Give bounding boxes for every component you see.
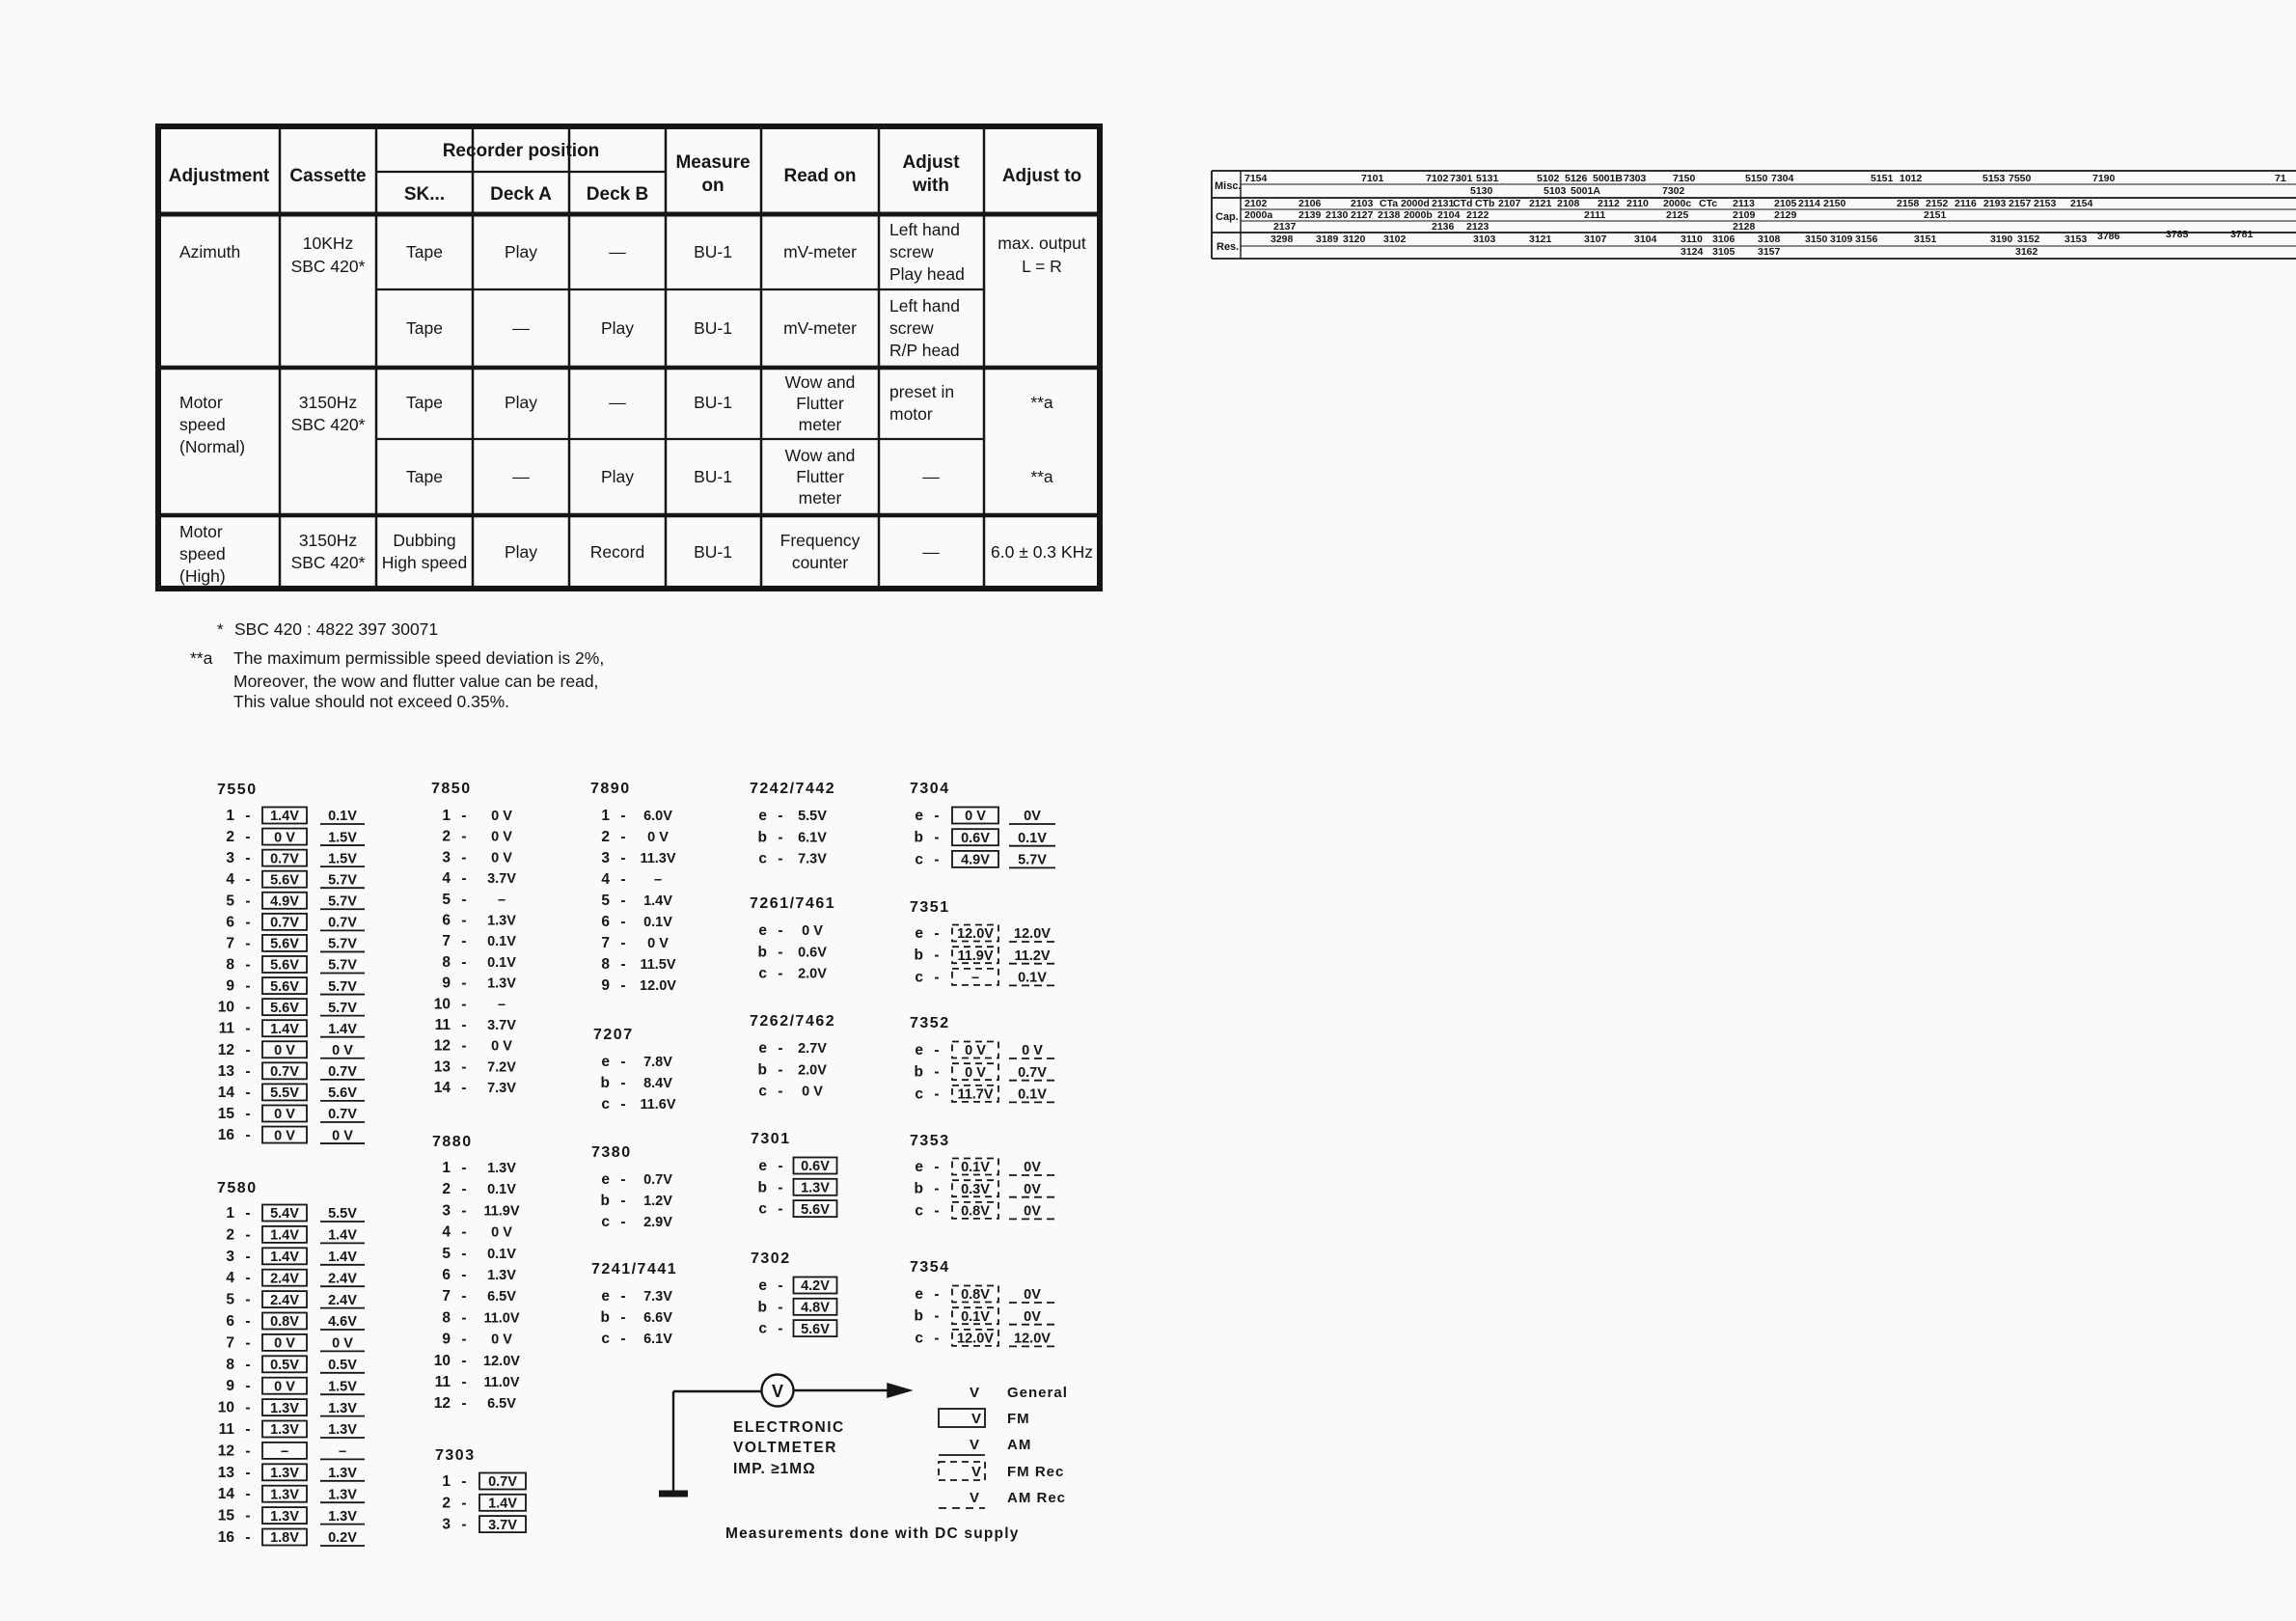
svg-text:0.1V: 0.1V (961, 1309, 990, 1325)
svg-text:mV-meter: mV-meter (783, 318, 857, 338)
svg-text:3.7V: 3.7V (487, 871, 516, 887)
svg-text:-: - (461, 1495, 466, 1511)
svg-text:-: - (245, 1357, 250, 1373)
svg-text:0.1V: 0.1V (643, 915, 672, 930)
svg-text:-: - (245, 850, 250, 866)
svg-text:1012: 1012 (1900, 173, 1923, 184)
svg-text:0.1V: 0.1V (328, 809, 357, 824)
svg-text:-: - (934, 948, 939, 964)
svg-text:1: 1 (226, 1205, 234, 1222)
svg-text:0 V: 0 V (802, 1085, 823, 1100)
svg-text:1: 1 (601, 808, 610, 824)
svg-text:Play: Play (601, 467, 634, 486)
svg-text:Measure: Measure (675, 152, 750, 173)
svg-text:2130: 2130 (1326, 209, 1349, 221)
svg-text:c: c (915, 969, 923, 985)
svg-text:-: - (461, 1224, 466, 1241)
svg-text:-: - (245, 1486, 250, 1502)
svg-text:2: 2 (442, 1181, 451, 1197)
svg-text:2: 2 (601, 829, 610, 845)
svg-text:**a: **a (1030, 467, 1053, 486)
svg-text:meter: meter (799, 488, 842, 508)
svg-text:-: - (245, 1313, 250, 1330)
svg-text:0.8V: 0.8V (961, 1287, 990, 1303)
svg-text:0V: 0V (1024, 1287, 1041, 1303)
svg-text:e: e (915, 925, 923, 942)
svg-text:2152: 2152 (1926, 198, 1949, 209)
svg-text:-: - (245, 1226, 250, 1243)
svg-text:-: - (461, 1332, 466, 1348)
svg-text:7302: 7302 (1662, 185, 1685, 197)
svg-text:Tape: Tape (406, 467, 443, 486)
svg-text:Play head: Play head (889, 264, 965, 284)
svg-text:1.3V: 1.3V (328, 1466, 357, 1481)
svg-text:-: - (245, 1421, 250, 1438)
svg-text:Motor: Motor (179, 393, 223, 412)
svg-text:c: c (915, 851, 923, 867)
svg-text:3152: 3152 (2017, 234, 2040, 245)
svg-text:5.7V: 5.7V (328, 894, 357, 910)
svg-text:-: - (934, 1042, 939, 1058)
svg-text:2150: 2150 (1823, 198, 1846, 209)
svg-text:-: - (778, 966, 782, 982)
svg-text:-: - (620, 1331, 625, 1347)
svg-text:-: - (620, 1171, 625, 1188)
svg-text:V: V (971, 1464, 981, 1480)
svg-text:10KHz: 10KHz (303, 234, 354, 253)
svg-text:0.1V: 0.1V (1018, 971, 1047, 986)
svg-text:15: 15 (218, 1106, 235, 1122)
svg-text:4.8V: 4.8V (801, 1301, 830, 1316)
svg-text:9: 9 (226, 978, 234, 995)
svg-text:11.0V: 11.0V (483, 1375, 519, 1390)
svg-text:2.7V: 2.7V (798, 1041, 827, 1057)
svg-text:0V: 0V (1024, 1309, 1041, 1325)
svg-text:0.6V: 0.6V (961, 831, 990, 846)
svg-text:*: * (217, 620, 224, 639)
svg-text:4.9V: 4.9V (270, 894, 299, 910)
svg-text:1.4V: 1.4V (328, 1250, 357, 1265)
svg-text:Recorder position: Recorder position (443, 141, 600, 161)
svg-text:c: c (915, 1330, 923, 1346)
svg-text:Motor: Motor (179, 522, 223, 541)
svg-text:VOLTMETER: VOLTMETER (733, 1440, 837, 1456)
svg-text:9: 9 (226, 1378, 234, 1394)
svg-text:5150: 5150 (1745, 173, 1768, 184)
svg-text:–: – (971, 971, 979, 986)
svg-text:4: 4 (226, 871, 234, 888)
svg-text:3153: 3153 (2064, 234, 2088, 245)
svg-text:-: - (934, 1159, 939, 1175)
svg-text:2193: 2193 (1983, 198, 2007, 209)
svg-text:e: e (915, 1042, 923, 1058)
svg-text:11.9V: 11.9V (957, 948, 993, 964)
svg-text:8: 8 (226, 1357, 234, 1373)
svg-text:-: - (778, 829, 782, 845)
svg-text:b: b (758, 1179, 767, 1195)
svg-text:6: 6 (601, 914, 610, 930)
svg-text:7: 7 (442, 933, 451, 949)
svg-text:-: - (461, 1080, 466, 1096)
svg-text:2105: 2105 (1774, 198, 1797, 209)
svg-text:5130: 5130 (1470, 185, 1493, 197)
svg-text:3150: 3150 (1805, 234, 1828, 245)
svg-text:0.1V: 0.1V (487, 955, 516, 971)
svg-text:4: 4 (601, 871, 610, 888)
svg-text:-: - (934, 925, 939, 942)
svg-text:Adjustment: Adjustment (169, 166, 270, 186)
svg-text:Deck A: Deck A (490, 184, 552, 205)
svg-text:max. output: max. output (998, 234, 1086, 253)
svg-text:b: b (601, 1309, 610, 1326)
svg-text:e: e (758, 1040, 767, 1057)
svg-text:1.4V: 1.4V (643, 893, 672, 909)
svg-text:0.2V: 0.2V (328, 1530, 357, 1546)
svg-text:-: - (620, 871, 625, 888)
svg-text:7302: 7302 (751, 1250, 791, 1267)
svg-text:-: - (245, 1465, 250, 1481)
svg-text:-: - (934, 851, 939, 867)
svg-text:7150: 7150 (1673, 173, 1696, 184)
svg-text:7353: 7353 (910, 1133, 950, 1149)
svg-text:6.1V: 6.1V (643, 1332, 672, 1347)
svg-text:AM Rec: AM Rec (1007, 1490, 1066, 1506)
svg-text:—: — (922, 467, 940, 486)
svg-text:b: b (758, 1299, 767, 1315)
svg-text:-: - (778, 1179, 782, 1195)
svg-text:0.7V: 0.7V (270, 851, 299, 866)
svg-text:BU-1: BU-1 (694, 318, 732, 338)
svg-text:3.7V: 3.7V (487, 1018, 516, 1033)
svg-text:-: - (461, 1017, 466, 1033)
svg-text:0V: 0V (1024, 809, 1041, 824)
svg-text:1.3V: 1.3V (801, 1181, 830, 1196)
svg-text:3150Hz: 3150Hz (299, 393, 357, 412)
svg-text:Moreover, the wow and flutter: Moreover, the wow and flutter value can … (233, 672, 598, 691)
svg-text:Play: Play (601, 318, 634, 338)
svg-text:e: e (758, 1278, 767, 1294)
svg-text:-: - (461, 1038, 466, 1055)
svg-text:0 V: 0 V (491, 1039, 512, 1055)
svg-text:-: - (245, 808, 250, 824)
svg-text:-: - (934, 1286, 939, 1303)
svg-text:c: c (915, 1085, 923, 1102)
svg-text:5: 5 (226, 893, 234, 909)
svg-text:2138: 2138 (1378, 209, 1401, 221)
svg-text:0.7V: 0.7V (1018, 1065, 1047, 1081)
svg-text:7.3V: 7.3V (643, 1289, 672, 1305)
svg-text:-: - (778, 944, 782, 960)
svg-text:counter: counter (792, 553, 849, 572)
svg-text:7: 7 (226, 1334, 234, 1351)
svg-text:—: — (922, 542, 940, 562)
svg-text:Play: Play (505, 242, 537, 261)
svg-text:Left hand: Left hand (889, 220, 960, 239)
svg-text:The maximum permissible speed: The maximum permissible speed deviation … (233, 648, 604, 668)
svg-text:2000d: 2000d (1401, 198, 1430, 209)
svg-text:2: 2 (442, 829, 451, 845)
svg-text:R/P head: R/P head (889, 341, 960, 360)
svg-text:1: 1 (442, 808, 451, 824)
svg-text:7301: 7301 (1450, 173, 1473, 184)
svg-text:e: e (601, 1171, 610, 1188)
svg-text:2.4V: 2.4V (328, 1293, 357, 1308)
svg-text:5151: 5151 (1871, 173, 1894, 184)
svg-text:c: c (758, 966, 767, 982)
svg-text:-: - (934, 830, 939, 846)
svg-text:—: — (512, 318, 530, 338)
svg-text:c: c (758, 1084, 767, 1100)
svg-text:7190: 7190 (2092, 173, 2116, 184)
svg-text:Wow and: Wow and (785, 372, 856, 392)
svg-text:5.7V: 5.7V (328, 937, 357, 952)
svg-text:-: - (620, 829, 625, 845)
svg-text:-: - (245, 1000, 250, 1016)
svg-text:3102: 3102 (1383, 234, 1407, 245)
svg-text:2109: 2109 (1733, 209, 1756, 221)
svg-text:c: c (758, 1321, 767, 1337)
svg-text:-: - (934, 1202, 939, 1219)
svg-text:0V: 0V (1024, 1204, 1041, 1220)
svg-text:-: - (245, 1508, 250, 1525)
svg-text:5: 5 (226, 1292, 234, 1308)
svg-text:0.7V: 0.7V (488, 1474, 517, 1490)
svg-text:5.6V: 5.6V (328, 1085, 357, 1101)
svg-text:11.5V: 11.5V (640, 957, 675, 973)
svg-text:5.6V: 5.6V (270, 1001, 299, 1016)
svg-text:e: e (915, 1286, 923, 1303)
svg-text:-: - (245, 956, 250, 973)
svg-text:4.9V: 4.9V (961, 853, 990, 868)
svg-text:5.7V: 5.7V (328, 958, 357, 974)
svg-text:-: - (778, 1321, 782, 1337)
svg-text:3108: 3108 (1758, 234, 1781, 245)
svg-text:5153: 5153 (1982, 173, 2006, 184)
svg-text:0 V: 0 V (1022, 1043, 1043, 1058)
svg-text:speed: speed (179, 415, 226, 434)
svg-text:3: 3 (442, 1517, 451, 1533)
svg-text:SK...: SK... (404, 184, 445, 205)
svg-text:-: - (245, 978, 250, 995)
svg-text:1: 1 (226, 808, 234, 824)
svg-text:1.4V: 1.4V (488, 1497, 517, 1512)
svg-text:-: - (461, 1181, 466, 1197)
svg-text:5: 5 (442, 1246, 451, 1262)
svg-text:-: - (245, 935, 250, 951)
svg-text:Misc.: Misc. (1215, 180, 1242, 192)
svg-text:13: 13 (218, 1465, 235, 1481)
svg-text:15: 15 (218, 1508, 235, 1525)
svg-text:0.7V: 0.7V (328, 916, 357, 931)
svg-text:0 V: 0 V (965, 1043, 986, 1058)
svg-text:3156: 3156 (1855, 234, 1878, 245)
svg-text:2136: 2136 (1432, 221, 1455, 233)
svg-text:c: c (758, 1201, 767, 1218)
svg-text:11.3V: 11.3V (640, 851, 675, 866)
svg-text:–: – (498, 893, 506, 908)
svg-text:4: 4 (442, 870, 451, 887)
svg-text:-: - (461, 975, 466, 992)
svg-text:e: e (915, 808, 923, 824)
svg-text:10: 10 (434, 1353, 451, 1369)
svg-text:-: - (461, 849, 466, 865)
svg-text:0.1V: 0.1V (1018, 1087, 1047, 1103)
svg-text:–: – (498, 997, 506, 1012)
svg-text:(High): (High) (179, 566, 226, 586)
svg-text:0.6V: 0.6V (798, 945, 827, 960)
svg-text:Play: Play (505, 542, 537, 562)
svg-text:1.4V: 1.4V (328, 1022, 357, 1037)
svg-text:-: - (245, 1400, 250, 1416)
svg-text:-: - (461, 1353, 466, 1369)
svg-text:0 V: 0 V (802, 923, 823, 939)
svg-text:7261/7461: 7261/7461 (750, 895, 835, 912)
svg-text:-: - (461, 1288, 466, 1305)
svg-text:8: 8 (226, 956, 234, 973)
svg-text:SBC 420*: SBC 420* (291, 553, 366, 572)
svg-text:0.7V: 0.7V (328, 1064, 357, 1080)
svg-text:6: 6 (226, 1313, 234, 1330)
svg-text:0 V: 0 V (965, 1065, 986, 1081)
svg-text:0 V: 0 V (274, 1336, 295, 1352)
svg-text:1.3V: 1.3V (270, 1401, 299, 1416)
svg-text:b: b (601, 1075, 610, 1091)
svg-text:2139: 2139 (1298, 209, 1322, 221)
svg-text:7207: 7207 (593, 1027, 634, 1043)
svg-text:-: - (778, 808, 782, 824)
svg-text:11: 11 (435, 1374, 451, 1390)
svg-text:-: - (461, 913, 466, 929)
svg-text:V: V (970, 1385, 979, 1401)
svg-text:11: 11 (219, 1021, 235, 1037)
svg-text:(Normal): (Normal) (179, 437, 245, 456)
svg-text:6.5V: 6.5V (487, 1396, 516, 1412)
svg-text:3785: 3785 (2166, 229, 2189, 240)
svg-text:3: 3 (226, 850, 234, 866)
svg-text:0.7V: 0.7V (643, 1172, 672, 1188)
svg-text:-: - (245, 1442, 250, 1459)
svg-text:7880: 7880 (432, 1134, 473, 1150)
svg-text:-: - (461, 892, 466, 908)
svg-text:-: - (620, 1214, 625, 1230)
svg-text:14: 14 (218, 1486, 235, 1502)
svg-text:7304: 7304 (1771, 173, 1794, 184)
svg-text:7380: 7380 (591, 1144, 632, 1161)
svg-text:motor: motor (889, 404, 933, 424)
svg-text:12: 12 (218, 1442, 234, 1459)
svg-text:High speed: High speed (382, 553, 468, 572)
svg-text:-: - (620, 956, 625, 973)
svg-text:0.3V: 0.3V (961, 1182, 990, 1197)
svg-text:e: e (915, 1159, 923, 1175)
svg-text:2103: 2103 (1351, 198, 1374, 209)
svg-text:IMP. ≥1MΩ: IMP. ≥1MΩ (733, 1461, 816, 1477)
svg-text:0.1V: 0.1V (487, 934, 516, 949)
svg-text:7101: 7101 (1361, 173, 1384, 184)
svg-text:-: - (778, 1084, 782, 1100)
svg-text:-: - (245, 1042, 250, 1058)
svg-text:Flutter: Flutter (796, 467, 844, 486)
svg-text:c: c (915, 1202, 923, 1219)
svg-text:L = R: L = R (1022, 257, 1062, 276)
svg-text:6: 6 (226, 914, 234, 930)
svg-text:5131: 5131 (1476, 173, 1499, 184)
svg-text:-: - (461, 933, 466, 949)
svg-text:3: 3 (226, 1249, 234, 1265)
svg-text:-: - (245, 1106, 250, 1122)
svg-text:1.3V: 1.3V (270, 1466, 299, 1481)
svg-text:0 V: 0 V (647, 936, 669, 951)
svg-text:CTc: CTc (1699, 198, 1717, 209)
svg-text:0.7V: 0.7V (270, 1064, 299, 1080)
svg-text:b: b (915, 1308, 923, 1325)
svg-text:BU-1: BU-1 (694, 467, 732, 486)
svg-text:2.9V: 2.9V (643, 1215, 672, 1230)
svg-text:-: - (778, 1158, 782, 1174)
svg-text:-: - (934, 969, 939, 985)
svg-text:0.6V: 0.6V (801, 1159, 830, 1174)
svg-text:8: 8 (601, 956, 610, 973)
svg-text:2112: 2112 (1598, 198, 1620, 209)
svg-text:0 V: 0 V (491, 809, 512, 824)
svg-text:-: - (934, 1064, 939, 1081)
svg-text:-: - (934, 808, 939, 824)
svg-text:2121: 2121 (1529, 198, 1552, 209)
svg-text:FM: FM (1007, 1411, 1030, 1427)
svg-text:7550: 7550 (217, 782, 258, 798)
svg-text:2.4V: 2.4V (328, 1271, 357, 1286)
svg-text:3: 3 (442, 849, 451, 865)
svg-text:6.0V: 6.0V (643, 809, 672, 824)
svg-text:2104: 2104 (1437, 209, 1461, 221)
svg-text:-: - (245, 1249, 250, 1265)
svg-text:5.6V: 5.6V (270, 937, 299, 952)
svg-text:5.7V: 5.7V (328, 979, 357, 995)
svg-text:-: - (245, 1127, 250, 1143)
svg-text:14: 14 (434, 1080, 451, 1096)
svg-text:4: 4 (442, 1224, 451, 1241)
svg-text:2157: 2157 (2009, 198, 2032, 209)
svg-text:2107: 2107 (1498, 198, 1521, 209)
svg-text:-: - (461, 1202, 466, 1219)
svg-text:2000c: 2000c (1663, 198, 1691, 209)
svg-text:SBC 420*: SBC 420* (291, 257, 366, 276)
svg-text:3189: 3189 (1316, 234, 1339, 245)
svg-text:BU-1: BU-1 (694, 393, 732, 412)
svg-text:12.0V: 12.0V (640, 978, 676, 994)
svg-text:1.3V: 1.3V (487, 976, 516, 992)
svg-text:0 V: 0 V (491, 850, 512, 865)
svg-text:12.0V: 12.0V (1014, 926, 1051, 942)
svg-text:1.3V: 1.3V (328, 1509, 357, 1525)
svg-text:–: – (339, 1444, 346, 1460)
svg-text:1.3V: 1.3V (270, 1487, 299, 1502)
svg-text:7351: 7351 (910, 899, 950, 916)
svg-text:b: b (758, 829, 767, 845)
svg-text:b: b (915, 948, 923, 964)
svg-text:Tape: Tape (406, 393, 443, 412)
svg-text:5102: 5102 (1537, 173, 1560, 184)
svg-text:-: - (620, 1096, 625, 1113)
svg-text:3298: 3298 (1271, 234, 1294, 245)
svg-text:3105: 3105 (1712, 246, 1736, 258)
svg-text:-: - (620, 1193, 625, 1209)
svg-text:8: 8 (442, 954, 451, 971)
svg-text:-: - (461, 1246, 466, 1262)
svg-text:CTd: CTd (1453, 198, 1472, 209)
svg-text:0.1V: 0.1V (1018, 831, 1047, 846)
svg-text:2.0V: 2.0V (798, 967, 827, 982)
